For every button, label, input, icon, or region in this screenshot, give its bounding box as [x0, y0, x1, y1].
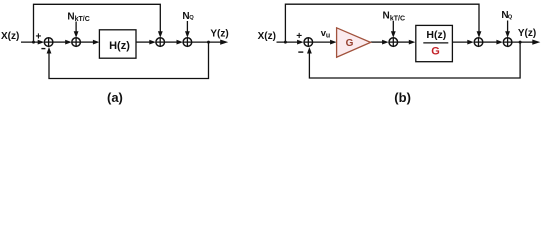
svg-text:u: u: [326, 32, 330, 39]
svg-text:+: +: [296, 31, 302, 42]
svg-text:Q: Q: [189, 15, 194, 21]
svg-text:H(z): H(z): [109, 40, 130, 52]
svg-text:kT/C: kT/C: [390, 15, 405, 22]
svg-text:(a): (a): [107, 90, 123, 105]
svg-text:N: N: [67, 11, 74, 22]
svg-text:kT/C: kT/C: [75, 16, 90, 23]
svg-text:Y(z): Y(z): [210, 28, 228, 39]
svg-text:Q: Q: [508, 14, 513, 20]
svg-text:N: N: [383, 11, 390, 22]
svg-text:H(z): H(z): [426, 29, 446, 41]
svg-text:G: G: [431, 46, 440, 58]
svg-text:X(z): X(z): [1, 31, 19, 42]
svg-text:X(z): X(z): [258, 31, 276, 42]
svg-text:G: G: [346, 38, 354, 49]
svg-text:(b): (b): [394, 90, 411, 105]
svg-text:Y(z): Y(z): [518, 28, 536, 39]
svg-text:+: +: [35, 31, 41, 42]
